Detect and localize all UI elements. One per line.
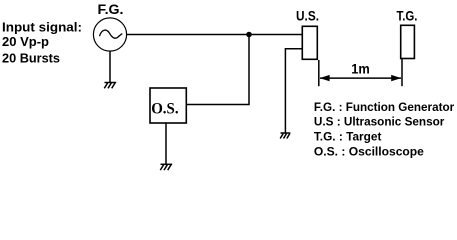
oscilloscope O.S. (150, 88, 186, 123)
dimension arrow 1m (320, 60, 402, 81)
dimension extension line (U.S. side) (318, 60, 320, 86)
ultrasonic sensor U.S. (302, 26, 317, 59)
svg-text:20 Vp-p: 20 Vp-p (2, 34, 49, 49)
svg-text:20 Bursts: 20 Bursts (2, 50, 60, 65)
wire: oscilloscope to ground (165, 123, 167, 164)
svg-text:1m: 1m (351, 60, 370, 76)
legend (314, 100, 454, 159)
target T.G. (401, 25, 415, 58)
junction node (246, 32, 252, 38)
ground (ultrasonic sensor) (280, 133, 290, 139)
svg-text:O.S.: O.S. (151, 101, 179, 118)
wire: U.S. to ground (285, 49, 302, 133)
wire: F.G. output to U.S. sensor (127, 34, 303, 36)
dimension extension line (T.G. side) (401, 59, 403, 86)
svg-text:T.G. : Target: T.G. : Target (314, 130, 382, 144)
ground (oscilloscope) (160, 164, 172, 170)
wire: junction to oscilloscope (186, 35, 249, 105)
svg-text:O.S. : Oscilloscope: O.S. : Oscilloscope (314, 145, 424, 159)
svg-text:T.G.: T.G. (397, 9, 418, 24)
svg-text:U.S.: U.S. (296, 9, 319, 24)
svg-text:U.S : Ultrasonic Sensor: U.S : Ultrasonic Sensor (314, 115, 445, 129)
function generator F.G. (AC source symbol) (93, 18, 126, 51)
svg-text:F.G. : Function Generator: F.G. : Function Generator (314, 100, 454, 114)
wire: F.G. to ground (109, 51, 111, 82)
ground (function generator) (104, 83, 116, 89)
svg-text:F.G.: F.G. (98, 2, 124, 17)
input signal annotation (2, 20, 82, 66)
svg-text:Input signal:: Input signal: (2, 20, 82, 35)
